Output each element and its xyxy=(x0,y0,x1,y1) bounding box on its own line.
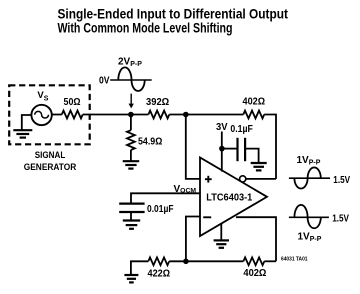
wire 392Ω to 402Ω (through node B) xyxy=(169,114,243,116)
label 54.9Ω xyxy=(138,136,162,147)
svg-text:1VP-P: 1VP-P xyxy=(297,155,321,167)
wire 0.1µF to ground xyxy=(245,149,259,163)
wire 422Ω to 402Ω (through node C) xyxy=(169,260,243,262)
ground (op-amp V-) xyxy=(214,240,229,247)
svg-text:0.01µF: 0.01µF xyxy=(147,204,174,215)
label 50Ω xyxy=(64,97,81,108)
capacitor 0.01µF xyxy=(119,204,144,212)
svg-text:402Ω: 402Ω xyxy=(243,268,266,279)
wire non-inverting output xyxy=(236,217,276,261)
label SIGNAL xyxy=(35,150,66,161)
ground (0.1µF) xyxy=(251,163,267,170)
ground (54.9Ω) xyxy=(123,161,140,168)
label 422Ω xyxy=(148,269,171,280)
input waveform axis xyxy=(110,79,152,81)
resistor 422Ω xyxy=(148,257,169,265)
wire 50Ω to node A xyxy=(83,114,149,116)
wire node B down to + input xyxy=(186,115,201,179)
label 64031 TA01 xyxy=(281,256,308,262)
ground (bottom 422Ω) xyxy=(124,275,138,282)
svg-text:GENERATOR: GENERATOR xyxy=(24,162,77,173)
svg-text:1.5V: 1.5V xyxy=(332,214,349,225)
label 0V xyxy=(99,76,110,87)
svg-text:50Ω: 50Ω xyxy=(64,97,81,108)
title line 1 xyxy=(58,6,289,21)
pin - (inverting input) xyxy=(203,216,211,218)
label 0.1µF xyxy=(230,124,253,135)
output bubble (inverting output) xyxy=(240,176,246,182)
title line 2 xyxy=(58,20,233,35)
source VS (sine source circle) xyxy=(31,105,51,125)
label VOCM xyxy=(174,184,197,195)
signal generator dashed box xyxy=(9,85,90,144)
svg-text:VS: VS xyxy=(37,90,48,102)
node 3V junction xyxy=(219,146,225,152)
label 1VP-P (top output) xyxy=(297,155,321,167)
svg-text:With Common Mode Level Shiftin: With Common Mode Level Shifting xyxy=(58,20,233,35)
top output waveform axis xyxy=(289,177,330,179)
ground (signal generator) xyxy=(13,130,32,137)
label 3V xyxy=(216,122,228,133)
svg-text:392Ω: 392Ω xyxy=(146,97,169,108)
wire 54.9Ω to ground xyxy=(130,150,132,161)
wire 3V node to 0.1µF xyxy=(222,148,238,150)
label 1.5V (top output) xyxy=(333,175,350,186)
wire 402Ω to right rail xyxy=(264,115,276,179)
label LTC6403-1 xyxy=(206,192,252,204)
svg-text:Single-Ended Input to Differen: Single-Ended Input to Differential Outpu… xyxy=(58,6,289,21)
op-amp U1 LTC6403-1 xyxy=(200,158,267,237)
pin + (non-inverting input) xyxy=(205,176,212,183)
wire V- pin to ground xyxy=(220,223,222,240)
resistor 402Ω (bottom feedback) xyxy=(243,257,264,265)
capacitor 0.1µF xyxy=(238,138,246,161)
svg-text:SIGNAL: SIGNAL xyxy=(35,150,66,161)
resistor 392Ω xyxy=(148,111,169,119)
wire 402Ω to right rail bottom xyxy=(264,260,276,262)
node A (junction input) xyxy=(128,112,134,118)
svg-text:0V: 0V xyxy=(99,76,110,87)
label VS xyxy=(37,90,48,102)
wire 0.01µF to ground xyxy=(130,212,132,220)
wire inverting output to right rail xyxy=(246,178,276,180)
label 2VP-P (input amplitude) xyxy=(118,56,142,68)
ground (0.01µF) xyxy=(123,221,140,229)
svg-text:422Ω: 422Ω xyxy=(148,269,171,280)
svg-text:LTC6403-1: LTC6403-1 xyxy=(206,192,252,204)
input sine wave xyxy=(118,67,144,91)
bottom output waveform axis xyxy=(289,216,329,218)
top output sine wave (inverted) xyxy=(294,167,320,188)
wire - input from node C xyxy=(186,217,201,262)
wire VOCM xyxy=(131,193,201,203)
svg-text:402Ω: 402Ω xyxy=(243,97,266,108)
svg-text:2VP-P: 2VP-P xyxy=(118,56,142,68)
resistor 402Ω (top feedback) xyxy=(243,111,264,119)
node C (- input / feedback junction) xyxy=(183,259,189,265)
resistor 54.9Ω xyxy=(127,130,135,150)
svg-text:54.9Ω: 54.9Ω xyxy=(138,136,162,147)
svg-text:0.1µF: 0.1µF xyxy=(230,124,253,135)
wire VS to 50Ω xyxy=(52,114,62,116)
svg-text:1VP-P: 1VP-P xyxy=(298,231,322,243)
node B (+ input / feedback junction) xyxy=(183,112,189,118)
svg-text:64031 TA01: 64031 TA01 xyxy=(281,256,308,262)
label 1VP-P (bottom output) xyxy=(298,231,322,243)
arrow to input node xyxy=(129,94,134,109)
wire bottom-left to ground xyxy=(131,261,148,274)
label 402Ω (top) xyxy=(243,97,266,108)
label 1.5V (bottom output) xyxy=(332,214,349,225)
label 0.01µF xyxy=(147,204,174,215)
wire VS left xyxy=(22,115,32,130)
label 392Ω xyxy=(146,97,169,108)
label GENERATOR xyxy=(24,162,77,173)
wire node A down to 54.9Ω xyxy=(130,115,132,131)
resistor 50Ω xyxy=(62,111,83,119)
label 402Ω (bottom) xyxy=(243,268,266,279)
bottom output sine wave xyxy=(294,205,320,228)
svg-text:1.5V: 1.5V xyxy=(333,175,350,186)
wire 3V supply to V+ pin xyxy=(221,132,223,172)
